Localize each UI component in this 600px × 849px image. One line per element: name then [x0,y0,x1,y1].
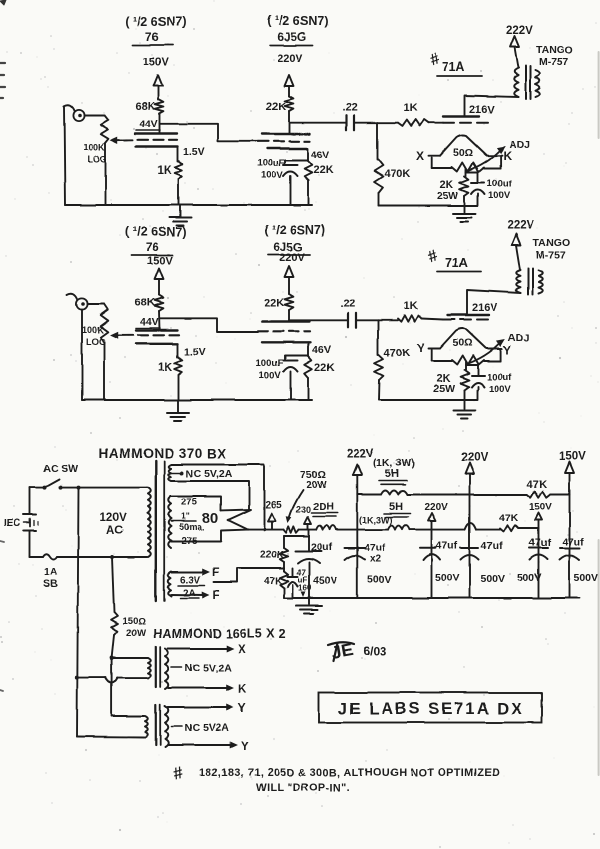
ADJ annotation arrow ch2 [467,340,505,365]
wire jack tip to volume pot ch1 [85,115,105,117]
svg-text:76: 76 [145,240,159,254]
ground bus ch2 output [379,390,478,400]
triode V1 grid ch1 [138,139,177,141]
hum pot 50ohm ch1 frame [432,157,501,169]
hum pot 50ohm ch2 frame [432,350,501,362]
svg-text:100V: 100V [489,384,512,395]
svg-text:220V: 220V [279,252,305,264]
svg-text:100V: 100V [261,170,284,181]
label Y right ch2 [503,343,511,357]
label 222V ch2 [507,220,534,232]
output transformer core ch1 [526,66,531,99]
signature JE 6/03 [328,639,387,663]
svg-text:150Ω: 150Ω [122,616,146,627]
resistor 1K grid stopper ch2 [398,315,422,321]
svg-text:2DH: 2DH [313,501,334,513]
fil trafo2 primary bottom lead [77,736,144,739]
svg-text:Y: Y [417,341,425,355]
svg-text:6J5G: 6J5G [277,30,306,44]
note line 1 [199,767,500,779]
output transformer TANGO M-757 ch1 primary [514,68,518,97]
label 100K LOG ch2 [82,325,106,347]
svg-text:76: 76 [145,30,159,44]
svg-text:IEC: IEC [4,518,21,529]
label 68K ch2 [135,297,155,309]
svg-text:47uf: 47uf [364,542,386,554]
note marker # [171,763,186,784]
svg-text:TANGO: TANGO [536,44,573,56]
label ADJ ch2 [508,332,529,344]
tube label (1/2 6SN7) 76 stage1 ch1 [125,15,186,45]
svg-text:HAMMOND 370 BX: HAMMOND 370 BX [99,446,227,461]
wire jack sleeve to ground bus ch1 [65,107,66,205]
150V supply label ch1 [143,56,169,68]
svg-text:NC 5V2A: NC 5V2A [185,722,230,734]
label K right ch1 [503,149,512,163]
rectifier 80 funnel [221,510,251,530]
svg-text:150V: 150V [143,56,169,68]
power transformer primary [148,488,151,557]
capacitor 100uF 100V ch1 out [466,172,485,196]
choke 5H mid label [384,501,410,517]
265 node arrow [268,513,276,530]
label (1K3W) mid [359,515,393,525]
resistor 150ohm 20W [111,557,118,658]
svg-text:47uf: 47uf [529,537,551,549]
wire 1K to bus ch1 [178,179,180,205]
220V supply label ch1 [277,53,303,65]
label 1.5V ch2 [184,346,206,358]
svg-text:216V: 216V [472,302,498,314]
svg-text:.22: .22 [340,298,355,310]
label 100uF 100V ch2 [256,358,284,381]
svg-text:230: 230 [296,505,311,515]
svg-text:275: 275 [181,497,198,508]
tube label (1/2 6SN7) 76 stage1 ch2 [125,225,186,255]
ground symbol ch1 output [454,214,476,222]
svg-text:20W: 20W [306,480,327,491]
label TANGO M-757 ch1 [536,44,573,68]
wire 68K to plate ch2 [158,311,161,330]
71A plate ch2 [447,314,489,316]
svg-text:X: X [416,149,424,163]
label 2K 25W ch1 [437,179,459,202]
svg-text:71A: 71A [445,256,468,270]
triode V2 cathode ch1 [267,147,307,149]
svg-text:( ¹/2 6SN7): ( ¹/2 6SN7) [125,225,186,239]
wire coupling takeoff ch2 [289,319,348,321]
label 275 top [181,497,198,508]
svg-text:1": 1" [181,511,190,521]
svg-text:47K: 47K [499,512,519,524]
wire 2K to ground ch1 [464,196,466,212]
resistor 47K mid [500,525,524,531]
wire 22K to plate node ch1 [288,111,290,134]
label 220V PSU [461,452,488,464]
PSU bottom rail [284,597,580,599]
label 265 node [265,500,282,511]
label 470K ch2 [384,347,410,359]
wire cathode down ch2 [177,343,179,357]
label 1K grid ch2 [404,300,418,312]
svg-text:NC 5V,2A: NC 5V,2A [185,662,232,674]
fil trafo1 primary top lead [112,657,148,659]
title box JE LABS SE71A DX [319,693,542,723]
svg-text:6/03: 6/03 [363,644,387,658]
150V supply arrow ch1 [154,75,163,100]
svg-text:1K: 1K [404,102,418,114]
wire rail 750 to choke [299,529,317,531]
svg-text:500V: 500V [574,572,599,584]
junction dot bottom rail neutral [110,555,114,559]
label Y left ch2 [417,341,425,355]
label 222V PSU [347,448,374,460]
svg-text:X: X [238,644,246,656]
label .22 ch1 [342,102,357,114]
svg-text:182,183, 71, 205D & 300B, ALTH: 182,183, 71, 205D & 300B, ALTHOUGH NOT O… [199,767,500,779]
label 222V ch1 [506,25,533,37]
ground symbol PSU [296,598,322,614]
svg-text:20uf: 20uf [311,541,333,553]
wire coupling takeoff ch1 [289,122,346,124]
label 47uF 160V [297,568,312,593]
label 80 rectifier [202,510,219,527]
ground bus ch1 output [379,196,478,206]
label 275 bottom [181,536,198,547]
capacitor 47uF 160V bias [288,568,305,598]
label 47K mid [499,512,519,524]
svg-text:500V: 500V [517,572,542,584]
resistor 22K plate ch1 [285,96,294,111]
wire 68K to plate ch1 [159,114,161,134]
output transformer core ch2 [528,268,533,295]
svg-text:M-757: M-757 [539,56,569,68]
svg-text:22K: 22K [313,164,333,176]
wire plate takeoff to stage2 ch2 [160,318,259,332]
label 44V ch2 [136,316,160,328]
capacitor 47uF 500V no5 [560,536,599,584]
label 22K plate ch2 [264,297,284,309]
150V supply label ch2 [147,255,173,267]
fil trafo1 NC tap [172,662,232,674]
wire rail mid to 220V2 node [357,529,388,531]
B+ rail from rectifier [248,529,284,531]
svg-text:220V: 220V [277,53,303,65]
svg-text:275: 275 [181,536,198,547]
capacitor 47uF x2 500V [345,542,392,586]
svg-text:44V: 44V [139,118,158,130]
filter branch top wire b [407,494,527,496]
svg-text:100V: 100V [259,370,282,381]
svg-text:Y: Y [241,741,249,753]
svg-text:100V: 100V [488,190,511,201]
potentiometer 100K LOG ch2 [100,304,108,400]
label 100K LOG ch1 [83,142,107,164]
fil trafo2 primary [145,716,148,737]
svg-text:.22: .22 [342,102,357,114]
fil trafo2 primary top lead [112,715,144,717]
222V PSU arrow [353,464,362,598]
wire cathode down ch1 [177,147,179,162]
wire 275 bottom lead [171,530,248,542]
label 100uf 100V ch1 out [487,178,513,201]
svg-text:222V: 222V [506,25,533,37]
71A filament tent ch2 [429,329,503,349]
svg-text:22K: 22K [264,297,284,309]
input jack J1 ch1 [64,105,85,121]
svg-text:100uF: 100uF [257,158,285,169]
resistor 470K grid leak ch1 [374,123,383,206]
svg-text:470K: 470K [384,168,410,180]
svg-text:( ¹/2 6SN7): ( ¹/2 6SN7) [264,223,325,237]
resistor 2K 25W ch1 [460,176,469,196]
output transformer TANGO M-757 ch2 primary [516,270,520,293]
fil trafo1 primary bottom lead [77,678,147,683]
750ohm pointer arrow [287,490,303,522]
triode V2 grid ch1 [258,140,310,142]
label 22K cathode ch2 [314,362,334,374]
label 150V PSU [559,451,586,463]
svg-text:50Ω: 50Ω [453,147,473,159]
label IEC [4,518,21,529]
svg-text:22K: 22K [314,362,334,374]
resistor 47K bias [280,568,288,598]
svg-text:1K: 1K [157,165,172,177]
capacitor 20uF 450V [296,530,322,598]
label 47K top [527,479,547,491]
svg-text:46V: 46V [312,344,331,356]
power switch [43,480,63,490]
svg-text:47K: 47K [264,576,283,587]
fil trafo1 K lead bottom [168,684,247,696]
label 470K ch1 [384,168,410,180]
label 47K bias [264,576,283,587]
wire cathode network ch2 [285,342,308,360]
svg-text:220V: 220V [424,502,448,513]
svg-text:47uf: 47uf [436,540,458,552]
svg-text:222V: 222V [347,448,374,460]
ground bus ch2 left [82,399,312,401]
svg-text:25W: 25W [437,190,459,202]
label 120V AC [100,512,127,537]
wire 1K to 71A grid ch1 [429,122,443,124]
svg-text:AC SW: AC SW [43,463,78,475]
capacitor 47uF 500V no2 [420,540,460,584]
150V supply arrow ch2 [155,268,164,295]
label 150V mid node [529,502,553,513]
222V arrow ch1 [510,36,519,68]
triode V2 cathode ch2 [262,341,310,343]
svg-text:K: K [238,684,247,696]
svg-text:NC 5V,2A: NC 5V,2A [186,468,233,480]
resistor 22K cathode ch1 [304,161,312,180]
ground bus ch1 left [66,204,313,206]
svg-text:222V: 222V [507,220,534,232]
wire 6.3V bottom lead F [171,590,220,602]
fil trafo2 core [156,705,160,745]
label (1K,3W) top [373,457,415,469]
resistor 68K ch1 [155,100,164,114]
tube label 71A ch2 [437,256,481,272]
hum pot wiper down ch1 [465,169,467,176]
choke 20H label [312,501,338,517]
svg-text:(1K,3W): (1K,3W) [359,515,393,525]
capacitor .22 coupling ch2 [348,313,356,327]
svg-text:100uf: 100uf [487,372,513,383]
choke 5H top label [379,468,407,484]
svg-text:100K: 100K [83,142,105,152]
svg-text:44V: 44V [140,316,159,328]
wire filament CT reference [214,568,284,582]
output transformer secondary ch1 [536,70,540,97]
wire 1K to bus ch2 [178,375,180,400]
svg-text:100uf: 100uf [487,178,513,189]
triode V1 plate ch2 [136,329,177,331]
resistor 1K grid stopper ch1 [398,120,429,126]
fil trafo2 secondary [165,707,168,748]
fil trafo1 secondary [165,649,168,690]
label AC SW [43,463,78,475]
capacitor 100uF cathode ch2 [284,361,298,401]
label 44V ch1 [136,118,160,130]
AC line top rail [30,487,148,489]
svg-text:AC: AC [106,525,123,537]
svg-text:470K: 470K [384,347,410,359]
filter branch top wire c [551,494,570,496]
label 100uF 100V ch1 [257,158,285,181]
svg-text:ADJ: ADJ [508,332,529,344]
resistor 750ohm 20W [284,526,300,532]
power transformer core [156,461,164,601]
svg-text:50Ω: 50Ω [453,337,473,349]
wire transformer to 71A plate ch2 [467,290,521,315]
svg-text:F: F [212,567,219,579]
tube label (1/2 6SN7) 6J5G stage2 ch1 [267,14,328,46]
label 230 node [296,505,311,515]
svg-text:( ¹/2 6SN7): ( ¹/2 6SN7) [267,14,328,28]
label 22K cathode ch1 [313,164,333,176]
svg-text:F: F [213,590,220,602]
label 100uf 100V ch2 out [487,372,513,395]
junction dot fil neutral [110,656,114,660]
220V PSU arrow [465,463,474,598]
ADJ annotation arrow ch1 [467,147,505,172]
svg-text:500V: 500V [480,573,505,585]
220V supply arrow ch1 [285,75,294,96]
svg-text:TANGO: TANGO [533,237,570,249]
wire 22K to bus ch2 [307,378,309,400]
svg-text:47K: 47K [527,479,547,491]
tube label 71A ch1 [437,60,482,76]
label 220V mid node [424,502,448,513]
svg-text:1K: 1K [158,362,173,374]
hum pot 50ohm zigzag ch1 [452,163,484,172]
wire jack sleeve down ch2 [81,310,83,401]
triode V2 plate ch2 [262,320,310,322]
capacitor 47uF 500V no4 [517,537,551,584]
wire cap to junction ch1 [354,122,378,124]
label ADJ ch1 [509,139,530,151]
svg-text:265: 265 [265,500,282,511]
71A plate ch1 [443,115,479,117]
svg-text:220K: 220K [260,550,285,561]
wire 150V2 node down [538,529,540,599]
label 1K ch1 [157,165,172,177]
svg-text:68K: 68K [135,101,155,113]
ground symbol ch1 stage bus [169,205,191,226]
capacitor 100uF cathode ch1 [284,165,298,205]
wire fil neutral to trafo2 [111,658,113,716]
svg-text:WILL "DROP-IN".: WILL "DROP-IN". [256,782,350,794]
svg-text:150V: 150V [529,502,553,513]
wire 1K to 71A grid ch2 [422,319,443,320]
wire plate takeoff to stage2 grid ch1 [160,124,259,142]
fuse 1A SB label [43,566,58,590]
label HAMMOND 166L5 X 2 [153,627,286,641]
label .22 ch2 [340,298,355,310]
resistor 1K cathode ch1 [175,161,183,179]
junction dot switch feed [77,486,81,490]
triode V1 plate ch1 [135,132,177,134]
220V supply label ch2 [279,252,305,264]
wire 6.3V top lead F [171,567,219,579]
resistor 22K plate ch2 [285,294,294,310]
ground symbol ch2 stage bus [167,400,189,421]
resistor 1K cathode ch2 [175,357,183,375]
svg-text:500V: 500V [367,574,392,586]
svg-text:K: K [503,149,512,163]
230 node arrow [305,517,312,530]
label 46V ch2 [312,344,331,356]
svg-text:120V: 120V [100,512,127,524]
wire choke to 222V node [336,529,357,531]
svg-text:5H: 5H [385,468,399,480]
label 2K 25W ch2 [433,373,455,395]
label HAMMOND 370 BX [99,446,227,461]
capacitor 100uF 100V ch2 out [466,365,485,390]
fil trafo2 NC tap [172,722,230,734]
svg-text:20W: 20W [126,628,146,639]
wire AC hot down to filament trafos [77,488,79,737]
triode V2 plate ch1 [262,133,310,135]
choke 5H mid [388,526,409,530]
svg-text:100uF: 100uF [256,358,284,369]
wire cap to junction ch2 [356,319,378,321]
svg-text:71A: 71A [442,60,465,74]
node junction 470K/1K ch2 [378,319,398,321]
secondary 5V winding [168,465,171,482]
71A grid ch2 [443,319,488,321]
label # note marker ch2 [425,247,439,266]
svg-text:6.3V: 6.3V [180,575,201,586]
svg-text:47uf: 47uf [562,536,584,548]
label 1.5V ch1 [183,146,205,158]
wire rail 220V2 to hop [409,529,464,531]
output transformer secondary ch2 [539,270,543,294]
fil trafo1 primary [148,658,151,678]
svg-text:150V: 150V [147,255,173,267]
wire 5V top to B+ rail [171,465,264,530]
wire 275 top lead [171,497,221,511]
label 216V ch2 [472,302,498,314]
hum pot wiper down ch2 [465,362,467,370]
secondary 275 winding [168,497,171,549]
label 68K ch1 [135,101,155,113]
svg-text:M-757: M-757 [536,249,566,261]
svg-text:160: 160 [298,584,312,593]
center tap 50ma [171,511,205,532]
wire 22K to bus ch1 [307,180,309,205]
